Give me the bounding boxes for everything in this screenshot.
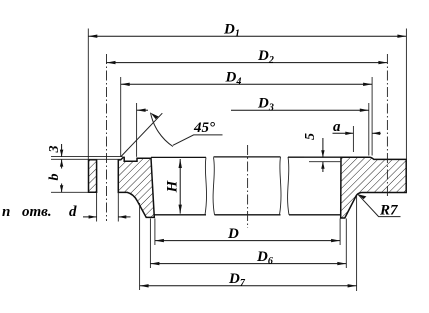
45 degree chamfer callout: diagonal ray: [121, 113, 162, 156]
dimension D1: [88, 22, 406, 40]
svg-text:D7: D7: [228, 271, 246, 289]
dimension b (plate thickness): [47, 174, 63, 193]
flange left rim section (through bolt hole, outer ring): [89, 160, 97, 193]
svg-text:5: 5: [303, 133, 318, 140]
dimension a (step width): [333, 119, 381, 135]
break line pair 1: [205, 157, 207, 214]
bore far-wall slab 3 (right): [288, 157, 341, 215]
extension line D7 left: [139, 203, 141, 290]
svg-text:D4: D4: [225, 70, 242, 88]
bolt hole centerline left: [106, 54, 108, 221]
svg-text:R7: R7: [379, 203, 398, 219]
dimension D4: [121, 70, 372, 88]
extension lines bolt hole d: [96, 192, 98, 221]
svg-text:D1: D1: [223, 22, 240, 40]
extension line D1 right: [405, 29, 407, 160]
svg-text:3: 3: [47, 146, 62, 154]
flange right section with raised face step and R7 neck fillet: [341, 157, 407, 218]
dimension 5 (raised face height): [303, 133, 325, 172]
dimension 3 (face step height): [47, 144, 63, 169]
svg-text:nотв.d: nотв.d: [2, 204, 77, 220]
extension line D7 right: [356, 196, 358, 291]
45 degree angle arc with arrowhead: [151, 113, 173, 147]
extension lines of 3 and b dims: [51, 156, 123, 158]
R7 fillet leader and label: [358, 194, 401, 218]
svg-text:D6: D6: [256, 249, 273, 267]
extension line D3 left: [136, 103, 138, 157]
bore far-wall slab 2 (center): [214, 157, 281, 215]
svg-text:H: H: [165, 179, 181, 193]
axis centerline: [247, 145, 249, 228]
bolt circle centerline right: [386, 54, 388, 196]
extension line D4 left: [120, 77, 122, 157]
extension lines of 5 dim: [304, 156, 340, 158]
45 degree label and leader: [173, 120, 223, 145]
extension line D4 right: [371, 77, 373, 156]
extension line D left: [154, 219, 156, 246]
break line pair 2: [280, 157, 282, 215]
extension line D1 left: [87, 29, 89, 160]
svg-text:a: a: [333, 119, 341, 135]
extension line D right: [339, 219, 341, 246]
svg-text:D2: D2: [257, 48, 274, 66]
svg-text:D3: D3: [257, 96, 274, 114]
bore far-wall slab 1 (left): [151, 157, 206, 214]
extension line D3 right: [368, 103, 370, 156]
dimension d of bolt holes: [83, 215, 131, 218]
flange left hub section with groove face and neck: [118, 157, 154, 217]
dimension D2: [107, 48, 388, 66]
dimension D6: [150, 249, 346, 267]
extension line D6 left: [149, 219, 151, 269]
dimension H (bore height): [165, 159, 182, 214]
svg-text:45°: 45°: [193, 120, 215, 136]
dimension D7: [140, 271, 357, 289]
svg-text:D: D: [227, 226, 239, 242]
extension line D6 right: [345, 219, 347, 269]
extension line a left: [352, 126, 354, 152]
dimension D3 (line broken around 45 deg callout): [137, 96, 369, 114]
dimension D: [155, 226, 340, 242]
svg-text:b: b: [47, 174, 62, 181]
